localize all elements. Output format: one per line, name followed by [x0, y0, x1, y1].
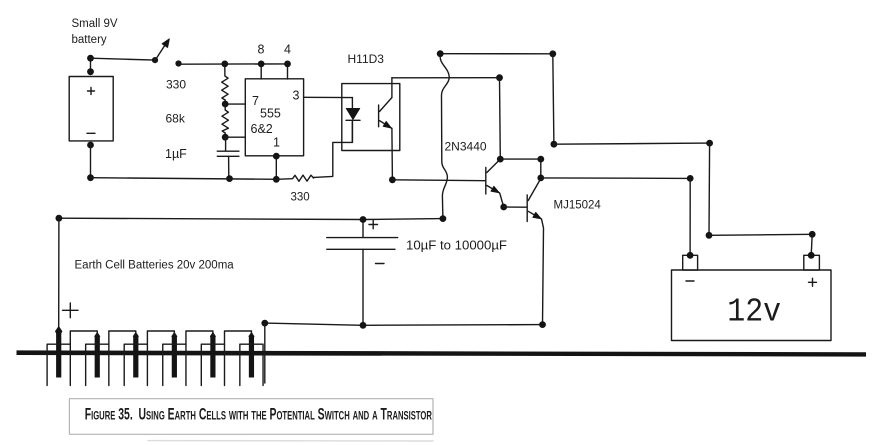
wire wavy drop from top rail to cap plus rail — [440, 56, 449, 219]
wire minus drop — [689, 178, 691, 255]
svg-text:7: 7 — [252, 94, 259, 108]
node top rail left — [437, 50, 444, 57]
wire cap minus rail — [265, 323, 543, 325]
opto-isolator U2 H11D3 box — [342, 52, 400, 151]
node cap minus rail left — [261, 320, 268, 327]
node pin 8 — [258, 61, 265, 68]
node pin7 junction — [222, 101, 229, 108]
node mid rail right — [706, 140, 713, 147]
wire collector rail to minus post — [541, 177, 690, 180]
wire emitter to Q2 base — [392, 179, 485, 182]
node Q2 collector — [497, 156, 504, 163]
transistor Q2 2N3440 — [445, 140, 504, 208]
wire battery to switch — [91, 58, 156, 60]
node cap plus rail left — [56, 215, 63, 222]
svg-text:8: 8 — [258, 43, 265, 57]
wire collector drop — [499, 78, 502, 159]
svg-text:555: 555 — [260, 107, 281, 121]
node cap plus rail right — [440, 215, 447, 222]
node cap plus — [360, 216, 367, 223]
wire top supply rail right — [440, 53, 553, 55]
wire series loop 3-4 — [147, 331, 174, 344]
op-amp U1 555 timer box — [245, 43, 303, 156]
svg-text:3: 3 — [293, 89, 300, 103]
earth plus marker — [63, 303, 79, 318]
node jog right — [809, 231, 816, 238]
svg-text:Earth Cell Batteries 20v 200ma: Earth Cell Batteries 20v 200ma — [75, 260, 235, 272]
node collector link top — [537, 156, 544, 163]
earth cell 6 — [240, 333, 263, 386]
resistor R1 330 — [166, 64, 228, 104]
wire pin 3 to opto LED — [304, 96, 353, 98]
LED D1 inside opto — [346, 98, 360, 143]
svg-text:1µF: 1µF — [165, 147, 187, 161]
node battery plus — [87, 55, 94, 62]
node Q3 base — [500, 204, 507, 211]
node pin6 junction — [222, 134, 229, 141]
wire to plus post — [811, 234, 812, 255]
earth cell 1 — [47, 327, 70, 386]
node battery minus — [87, 142, 94, 149]
capacitor C1 1uF — [165, 137, 239, 178]
earth cell 3 — [124, 333, 147, 386]
wire series loop 5-6 — [225, 331, 252, 344]
wire Q2 collector to Q3 collector — [500, 159, 541, 178]
node bottom left corner — [87, 174, 94, 181]
svg-text:2N3440: 2N3440 — [445, 140, 487, 154]
wire jog horizontal — [709, 234, 812, 235]
wire opto collector rail — [392, 77, 500, 79]
resistor R3 330 — [276, 175, 314, 203]
battery B1 label "Small 9V battery" — [72, 18, 118, 46]
transistor Q3 MJ15024 — [527, 179, 601, 325]
node opto emitter — [389, 176, 396, 183]
svg-text:4: 4 — [284, 43, 291, 57]
svg-text:6&2: 6&2 — [251, 122, 273, 136]
svg-text:330: 330 — [291, 192, 310, 204]
node top rail right — [549, 50, 556, 57]
node pin 1 — [273, 153, 280, 160]
wire series loop 1-2 — [70, 331, 97, 344]
wire pin 8 stub — [260, 64, 262, 79]
wire Q3 base — [504, 206, 527, 208]
svg-text:H11D3: H11D3 — [348, 52, 385, 66]
phototransistor Q1 inside opto — [379, 78, 393, 180]
wire battery plus stub — [90, 58, 92, 74]
earth cell 5 — [201, 333, 224, 386]
svg-text:12v: 12v — [727, 294, 781, 331]
svg-text:Figure 35. Using Earth Cells: Figure 35. Using Earth Cells with the Po… — [85, 405, 433, 423]
resistor R2 68k — [166, 104, 229, 137]
wire switch to 555 top rail — [179, 63, 288, 65]
battery B1 (small 9V) — [69, 77, 113, 141]
battery B2 12v — [672, 252, 832, 341]
caption box — [69, 399, 433, 441]
svg-text:Small 9V: Small 9V — [72, 18, 118, 30]
ground line — [17, 350, 867, 356]
switch S1 — [152, 39, 182, 67]
wire pin 4 stub — [287, 64, 289, 79]
wire R3 to LED cathode — [314, 122, 352, 177]
wire cap plus rail — [59, 218, 443, 219]
node top rail R1 tap — [221, 61, 228, 68]
svg-text:battery: battery — [72, 34, 107, 46]
wire earth minus terminal — [264, 323, 266, 383]
node jog left — [706, 232, 713, 239]
node mid rail left — [551, 141, 558, 148]
svg-text:68k: 68k — [166, 112, 186, 126]
capacitor C2 10uF to 10000uF — [327, 220, 507, 326]
node opto collector rail — [496, 74, 503, 81]
svg-text:10µF to 10000µF: 10µF to 10000µF — [406, 238, 507, 253]
node collector link bottom — [537, 175, 544, 182]
wire drop to plus jog — [708, 143, 711, 235]
wire series loop 4-5 — [186, 331, 213, 344]
wire battery minus down — [90, 145, 92, 178]
node cap minus — [360, 322, 367, 329]
svg-text:330: 330 — [166, 78, 186, 92]
node pin 4 — [284, 61, 291, 68]
node minus drop — [687, 175, 694, 182]
node C1 bottom — [226, 175, 233, 182]
wire right rail drop — [553, 54, 554, 144]
earth cell 4 — [163, 333, 186, 386]
wire mid rail — [554, 143, 710, 144]
wire pin 6&2 stub — [225, 136, 245, 138]
wire series loop 2-3 — [109, 331, 136, 344]
wire bottom rail to pin1 — [91, 178, 277, 180]
wire pin 1 stub — [275, 156, 277, 179]
wire pin 7 stub — [225, 103, 245, 105]
wire earth plus drop — [58, 218, 60, 328]
svg-text:1: 1 — [273, 136, 280, 150]
earth cell 2 — [86, 333, 109, 386]
node cap minus rail right — [539, 321, 546, 328]
svg-text:MJ15024: MJ15024 — [554, 200, 602, 212]
